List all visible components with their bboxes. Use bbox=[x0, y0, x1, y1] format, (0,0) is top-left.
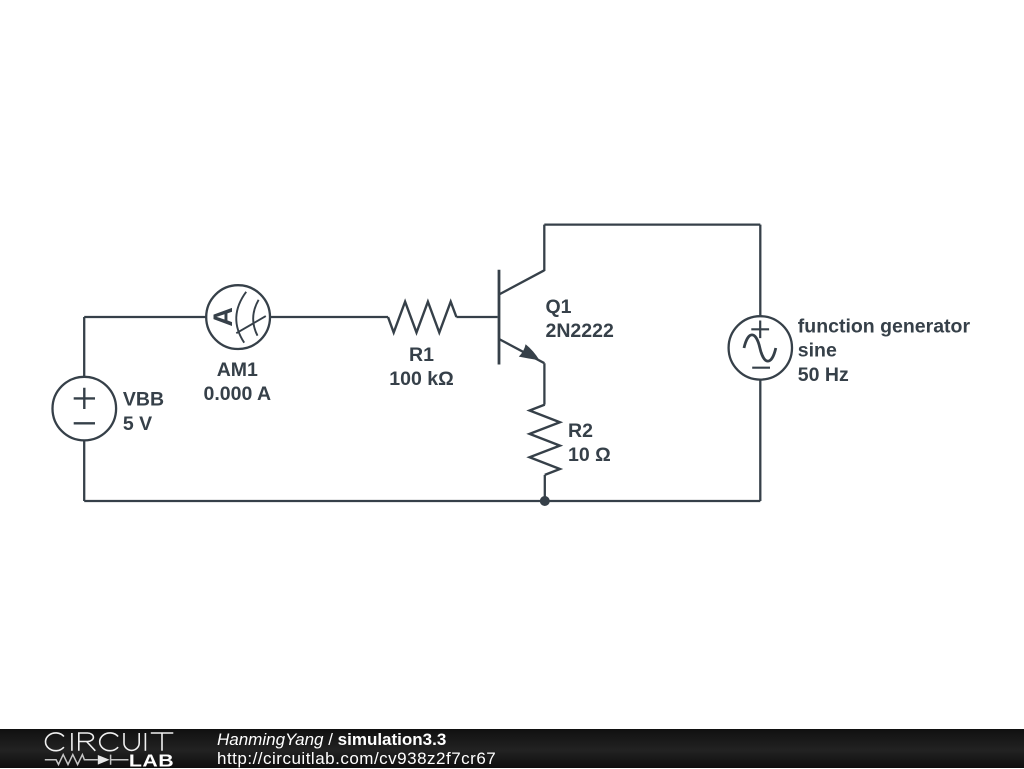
wire bbox=[759, 380, 761, 502]
svg-text:Q1: Q1 bbox=[546, 296, 572, 318]
svg-text:sine: sine bbox=[798, 340, 837, 362]
svg-text:LAB: LAB bbox=[129, 751, 174, 768]
wire bbox=[759, 225, 761, 317]
footer title bbox=[217, 730, 446, 750]
wire bbox=[83, 317, 85, 377]
wire bbox=[84, 316, 206, 318]
svg-text:10 Ω: 10 Ω bbox=[568, 444, 611, 466]
svg-text:R2: R2 bbox=[568, 420, 593, 442]
svg-text:R1: R1 bbox=[409, 344, 434, 366]
footer bar bbox=[0, 729, 1024, 768]
svg-text:0.000 A: 0.000 A bbox=[204, 383, 272, 405]
svg-text:2N2222: 2N2222 bbox=[546, 320, 614, 342]
svg-text:5 V: 5 V bbox=[123, 413, 152, 435]
wire bbox=[544, 475, 546, 501]
svg-text:VBB: VBB bbox=[123, 389, 164, 411]
svg-text:100 kΩ: 100 kΩ bbox=[389, 368, 453, 390]
resistor R2 bbox=[530, 405, 560, 475]
footer url bbox=[217, 749, 496, 769]
transistor Q1 bbox=[499, 225, 544, 405]
wire bbox=[456, 316, 497, 318]
wire bbox=[84, 500, 760, 502]
ammeter AM1 bbox=[206, 285, 270, 349]
svg-text:AM1: AM1 bbox=[217, 359, 258, 381]
wire bbox=[544, 223, 760, 225]
voltage source VBB bbox=[53, 377, 117, 441]
resistor R1 bbox=[388, 302, 456, 333]
svg-text:function generator: function generator bbox=[798, 316, 971, 338]
wire bbox=[270, 316, 388, 318]
node junction bbox=[540, 496, 550, 506]
voltage source V1 function generator bbox=[729, 316, 792, 379]
CircuitLab logo bbox=[0, 729, 200, 768]
svg-text:A: A bbox=[208, 307, 238, 327]
svg-text:50 Hz: 50 Hz bbox=[798, 364, 849, 386]
wire bbox=[83, 440, 85, 501]
